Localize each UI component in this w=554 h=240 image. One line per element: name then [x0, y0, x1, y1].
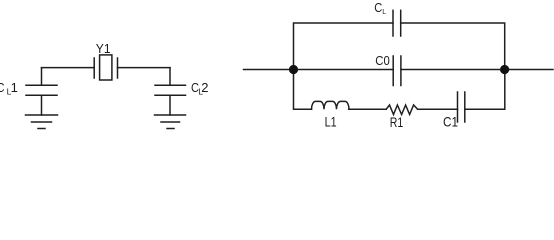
svg-text:1: 1 [11, 80, 18, 95]
svg-text:C: C [374, 0, 382, 15]
svg-text:L: L [382, 9, 386, 16]
svg-text:C1: C1 [443, 114, 458, 130]
svg-text:2: 2 [201, 80, 208, 95]
svg-text:L1: L1 [325, 113, 337, 129]
svg-text:C: C [0, 80, 5, 95]
svg-text:R1: R1 [390, 114, 404, 130]
svg-text:C0: C0 [375, 53, 390, 68]
svg-text:Y1: Y1 [96, 41, 111, 56]
